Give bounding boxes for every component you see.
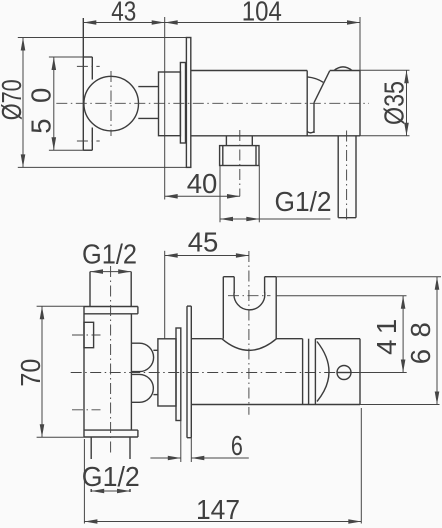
svg-text:70: 70 [15,359,46,387]
svg-text:147: 147 [196,494,240,525]
dimension dia70 [0,38,191,168]
holder axis [248,251,250,415]
body joint line [306,71,308,136]
dimension line 104 (top) [165,0,360,26]
dimension dia35 [360,70,410,136]
svg-text:104: 104 [242,0,282,26]
dimension 6 [150,421,248,463]
stem [138,87,158,119]
nut centerline [239,130,241,196]
flange block [159,72,181,136]
dimension G1/2 outlet [91,489,130,494]
dimension G1/2 nut [220,166,332,223]
down pipe centerline [346,131,348,223]
dimension 68 [276,277,441,405]
svg-text:43: 43 [111,0,136,26]
extension line flange [164,17,166,200]
valve head top [330,70,360,72]
hole center mark bottom [77,140,100,142]
ball knob circle [84,76,139,131]
lever diagonal edge [314,71,330,103]
flange narrow plate [180,63,185,144]
svg-text:G1/2: G1/2 [275,186,332,217]
lever dome [334,67,352,71]
down pipe [338,136,356,218]
dimension 41 [276,296,407,373]
dimension line 43 (top) [83,0,164,26]
escutcheon front [187,306,191,438]
holder cup slot [234,277,265,310]
svg-text:G1/2: G1/2 [82,461,140,492]
hole mark top [72,334,101,336]
svg-text:G1/2: G1/2 [82,238,137,269]
outlet pipe [91,437,130,492]
port bump top [131,343,153,371]
ball vertical centerline [110,71,112,136]
outlet neck [226,136,252,146]
valve head end [315,339,360,405]
holder cup outer [222,277,277,351]
G1/2 outlet label [82,461,140,492]
hole center mark top [77,65,100,67]
port stubs [153,350,158,394]
right body [191,339,360,405]
svg-text:45: 45 [188,226,219,257]
narrow plate front [176,328,181,421]
hole mark bottom [72,409,101,411]
flange block front [158,339,176,406]
escutcheon plate [186,38,190,168]
bracket plate [83,18,92,150]
dimension 70 [15,306,84,437]
valve joint line [307,103,314,133]
holder pivot line [228,295,271,297]
main horizontal centerline [56,102,369,104]
body tube top [191,70,307,72]
dimension 147 [84,408,361,525]
port bump bottom [131,374,153,402]
outlet nut [220,146,259,166]
dimension 40 [165,168,240,199]
dimension G1/2 inlet [82,238,137,274]
dimension 45 [165,226,249,338]
valve ring [309,339,316,405]
svg-text:40: 40 [187,168,218,199]
screw circle [337,366,351,380]
body block [84,307,138,438]
dimension 50 [26,57,93,150]
lever collar arc [307,77,323,82]
svg-text:Ø35: Ø35 [379,81,410,125]
valve dome [317,342,329,402]
bottom main centerline [71,372,352,374]
body vertical centerline [110,266,112,455]
svg-text:Ø70: Ø70 [0,79,27,120]
extension line body end [359,17,361,136]
mounting window [84,322,94,347]
body bottom [191,135,360,137]
inlet pipe [90,272,131,307]
svg-text:6: 6 [231,430,243,461]
